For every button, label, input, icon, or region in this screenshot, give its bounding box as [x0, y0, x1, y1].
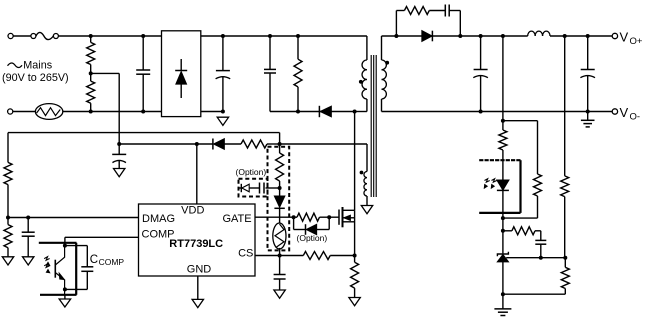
opto-coupler U2 phototransistor — [39, 242, 77, 244]
wire to DMAG pin — [8, 217, 139, 219]
fuse F1 — [31, 34, 36, 39]
wire — [502, 294, 504, 309]
svg-text:CS: CS — [238, 248, 253, 260]
ground — [192, 299, 203, 307]
node — [501, 34, 505, 38]
diode D4 — [279, 188, 281, 196]
svg-text:RT7739LC: RT7739LC — [169, 238, 223, 250]
op-amp U1 RT7739LC — [139, 204, 256, 276]
wire CS pin — [255, 255, 303, 257]
svg-text:V: V — [620, 30, 629, 45]
thermistor RT1 — [35, 104, 62, 120]
wire — [550, 35, 612, 37]
node — [195, 142, 199, 146]
capacitor C7 — [480, 36, 482, 70]
node — [63, 287, 67, 291]
capacitor C4 — [118, 144, 120, 154]
resistor R10 sense — [354, 256, 356, 263]
node — [278, 142, 282, 146]
node — [292, 215, 296, 219]
wire DMAG rail — [8, 132, 280, 134]
svg-text:O+: O+ — [630, 36, 643, 47]
dashed option box — [268, 147, 290, 251]
resistor R3 — [297, 36, 299, 59]
opto-coupler U2 LED box — [479, 159, 520, 161]
terminal Vo- — [612, 109, 617, 114]
node — [296, 110, 300, 114]
node — [221, 110, 225, 114]
capacitor C8 — [587, 36, 589, 70]
capacitor + diode option branch — [266, 187, 280, 189]
node — [458, 34, 462, 38]
ground earth — [587, 112, 589, 121]
wire feedback — [502, 36, 504, 130]
svg-text:GATE: GATE — [222, 213, 251, 225]
node — [353, 110, 357, 114]
wire clamp — [270, 111, 355, 113]
resistor R5 — [7, 133, 9, 163]
resistor R4 — [241, 140, 267, 148]
node — [479, 110, 483, 114]
svg-text:V: V — [620, 105, 629, 120]
svg-text:DMAG: DMAG — [142, 213, 175, 225]
varistor RV1 — [273, 223, 286, 249]
wire — [13, 35, 31, 37]
node — [501, 229, 505, 233]
node — [221, 34, 225, 38]
node — [141, 34, 145, 38]
svg-text:(Option): (Option) — [297, 233, 328, 243]
resistor R15 divider — [564, 36, 566, 176]
node secondary phase dot — [385, 61, 389, 65]
resistor R1 — [90, 36, 92, 42]
resistor R14 — [503, 230, 512, 232]
node — [278, 186, 282, 190]
node — [394, 34, 398, 38]
wire Vo+ rail — [366, 35, 368, 37]
wire Vo- rail — [382, 111, 613, 113]
node — [539, 256, 543, 260]
inductor L1 — [528, 31, 535, 36]
shunt regulator U3 — [502, 231, 504, 254]
diode D3 (option) — [293, 217, 295, 229]
node — [586, 34, 590, 38]
node — [327, 215, 331, 219]
capacitor C COMP — [65, 245, 87, 247]
node — [586, 110, 590, 114]
node — [6, 216, 10, 220]
svg-text:(Option): (Option) — [236, 167, 267, 177]
node — [89, 34, 93, 38]
ground — [361, 206, 372, 214]
wire — [201, 111, 223, 113]
bridge rectifier BD1 — [162, 31, 201, 117]
diode D1 — [318, 106, 320, 117]
node primary phase dot — [359, 80, 363, 84]
svg-text:VDD: VDD — [181, 205, 204, 217]
resistor R12 — [499, 130, 507, 150]
ground — [114, 169, 125, 177]
ground — [217, 117, 228, 125]
node — [501, 292, 505, 296]
ground — [274, 290, 285, 298]
label ~ Mains — [8, 63, 23, 68]
node — [268, 34, 272, 38]
node — [501, 119, 505, 123]
resistor R13 — [534, 174, 542, 196]
ground — [23, 257, 34, 265]
svg-text:(90V to 265V): (90V to 265V) — [2, 72, 69, 84]
resistor R6 — [4, 225, 12, 248]
resistor R8 — [279, 144, 281, 153]
svg-text:Mains: Mains — [23, 60, 52, 72]
node — [63, 244, 67, 248]
wire — [64, 295, 66, 299]
diode D2 — [212, 139, 214, 150]
transformer T1 auxiliary winding — [366, 144, 368, 172]
svg-text:GND: GND — [187, 264, 212, 276]
node — [278, 254, 282, 258]
wire VDD pin — [196, 144, 198, 204]
wire GND pin — [197, 276, 199, 299]
wire — [382, 35, 528, 37]
wire — [503, 217, 538, 219]
ground — [2, 257, 13, 265]
node — [141, 110, 145, 114]
wire — [201, 35, 367, 37]
svg-text:O-: O- — [630, 112, 641, 123]
node — [501, 216, 505, 220]
node — [117, 142, 121, 146]
node — [563, 34, 567, 38]
wire — [503, 120, 538, 122]
capacitor C1 — [142, 36, 144, 70]
transformer T1 secondary — [381, 36, 383, 60]
node — [479, 34, 483, 38]
capacitor C3 — [269, 36, 271, 69]
wire tap to startup — [91, 72, 120, 74]
terminal Vo+ — [612, 33, 617, 38]
transformer T1 primary — [366, 36, 368, 60]
resistor R16 divider — [564, 258, 566, 268]
diode D5 output — [422, 31, 432, 42]
dashed option box 2 — [239, 179, 268, 197]
terminal line input (bottom) — [8, 109, 13, 114]
svg-text:C: C — [90, 254, 98, 266]
ground — [349, 298, 360, 306]
wire — [13, 111, 36, 113]
node — [26, 216, 30, 220]
wire VDD line — [119, 143, 213, 145]
resistor R2 — [87, 81, 95, 103]
node — [89, 71, 93, 75]
diode D6 opto LED — [502, 160, 504, 180]
capacitor C9 — [429, 10, 445, 12]
resistor R11 — [395, 11, 397, 37]
terminal line input (top) — [8, 33, 13, 38]
node — [563, 256, 567, 260]
node — [353, 254, 357, 258]
svg-text:COMP: COMP — [99, 257, 125, 267]
ground earth — [494, 308, 511, 310]
node aux phase dot — [360, 171, 364, 175]
transformer core — [370, 55, 372, 197]
wire — [280, 143, 367, 145]
capacitor C2 — [222, 36, 224, 70]
transistor Q1 — [338, 210, 340, 225]
wire GATE pin — [255, 216, 294, 218]
ground — [59, 299, 71, 307]
capacitor C5 — [27, 218, 29, 233]
node — [89, 110, 93, 114]
wire — [58, 35, 161, 37]
wire COMP pin — [65, 236, 139, 238]
resistor R9 — [303, 252, 330, 260]
node — [296, 34, 300, 38]
capacitor C6 — [279, 256, 281, 275]
wire — [63, 111, 162, 113]
resistor R7 — [297, 213, 320, 221]
capacitor C10 — [540, 231, 542, 241]
